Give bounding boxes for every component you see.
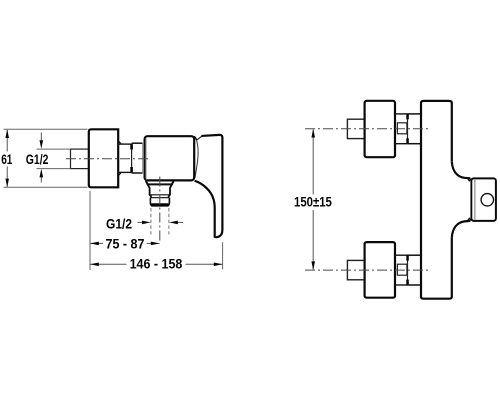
flange right chamfer top	[118, 141, 121, 145]
top notch tick	[467, 178, 471, 181]
wire: bottom centerline	[305, 269, 430, 271]
top pipe stub	[347, 119, 364, 138]
svg-text:61: 61	[1, 151, 12, 167]
bottom wall flange	[365, 242, 395, 298]
dimension 150±15 line	[312, 130, 314, 195]
handle end plate (front)	[471, 178, 496, 221]
bottom notch tick	[467, 218, 471, 221]
svg-text:150±15: 150±15	[294, 193, 332, 209]
bulge bottom curve	[452, 221, 471, 238]
valve body	[145, 136, 195, 180]
dashed thread extension left	[150, 208, 152, 235]
svg-text:G1/2: G1/2	[106, 215, 132, 231]
dimension 61 arrow down	[5, 179, 9, 188]
flange right chamfer bottom	[118, 172, 121, 176]
G1/2 arrow up	[40, 176, 42, 182]
outlet nut	[148, 184, 151, 197]
G1/2 top extension line	[37, 148, 71, 150]
dimension 146 - 158	[90, 263, 127, 265]
body inner shade line	[145, 138, 147, 180]
handle lever (side) fill	[195, 135, 223, 237]
dome corner between body and lever	[194, 136, 197, 140]
G1/2 bottom dim arrows	[138, 221, 144, 223]
wire: horizontal centerline left view	[66, 158, 151, 160]
wire: top centerline	[305, 128, 430, 130]
svg-text:75 - 87: 75 - 87	[106, 235, 145, 251]
dimension 75 - 87	[90, 242, 103, 244]
top junction line with blobs	[407, 114, 409, 144]
lever front edge thin curve	[195, 140, 198, 177]
main body (front) fill	[421, 101, 470, 299]
top union nut	[408, 113, 422, 115]
bottom neck ring	[395, 254, 408, 256]
outlet shoulder	[146, 181, 174, 185]
junction line with blobs	[131, 144, 133, 172]
top wall flange	[365, 101, 395, 157]
top square drive	[397, 123, 407, 134]
G1/2 arrow down	[40, 133, 42, 142]
bottom square drive	[397, 264, 407, 275]
extension line right handle end	[222, 242, 224, 269]
extension line left wall face	[89, 191, 91, 270]
dimension 61 extension line top	[4, 128, 88, 130]
wire: vertical centerline of outlet	[159, 177, 161, 244]
bottom union nut	[408, 254, 422, 256]
outlet nose G1/2	[150, 198, 169, 206]
handle plate inner line	[474, 180, 476, 220]
wall flange	[89, 129, 118, 187]
G1/2 bottom extension line	[37, 168, 71, 170]
outlet dark mouth	[151, 203, 168, 206]
lever thin back slant	[196, 136, 202, 140]
bottom pipe stub	[347, 260, 364, 279]
svg-text:G1/2: G1/2	[26, 151, 49, 167]
bulge top curve	[452, 162, 471, 179]
dimension 61 line	[6, 130, 8, 152]
dimension 61 arrow up	[5, 129, 9, 138]
union nut	[132, 142, 143, 144]
dimension 61 extension line bottom	[4, 186, 88, 188]
lever pivot circle	[481, 194, 493, 206]
bottom junction line with blobs	[407, 255, 409, 285]
svg-text:146 - 158: 146 - 158	[130, 256, 183, 272]
dashed thread extension right	[168, 208, 170, 235]
neck ring	[118, 143, 131, 145]
top neck ring	[395, 113, 408, 115]
lever outline thick	[195, 135, 223, 237]
main body outline	[421, 101, 452, 299]
inlet pipe stub G1/2	[71, 149, 89, 169]
